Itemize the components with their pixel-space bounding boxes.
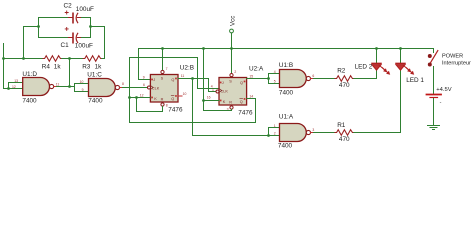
svg-text:Interrupteur: Interrupteur [442,61,471,67]
node rail K U2:A [202,47,205,50]
svg-text:7476: 7476 [168,106,183,113]
capacitor C1 [65,27,80,42]
op-amp U1:C 7400 NAND gate [80,71,124,104]
svg-text:7400: 7400 [22,97,37,104]
LED D2 [372,63,390,74]
svg-text:U2:A: U2:A [249,66,264,73]
svg-text:R: R [229,100,232,104]
svg-text:7400: 7400 [278,143,293,150]
wire K(B) net vertical [129,58,131,123]
svg-text:Q: Q [240,100,243,104]
node U2:B K net corner [128,96,131,99]
svg-text:R2: R2 [337,67,346,74]
svg-text:Q: Q [171,78,174,82]
wire K(B) net top horizontal [130,57,198,59]
svg-text:6: 6 [312,74,314,78]
svg-text:100uF: 100uF [76,6,94,13]
op-amp U1:D 7400 NAND gate [12,71,59,104]
resistor R1 [335,130,354,136]
svg-text:470: 470 [339,136,350,143]
svg-text:R4: R4 [42,63,51,70]
wire rail to LED2 [376,49,378,64]
svg-text:LED 2: LED 2 [355,64,373,71]
svg-text:CLK: CLK [152,86,160,90]
svg-text:2: 2 [274,132,276,136]
node cap loop right [89,25,92,28]
svg-text:1k: 1k [54,63,62,70]
svg-text:-: - [440,99,442,105]
wire U1:A input tie [269,128,280,136]
wire left rail stub [3,44,5,89]
resistor R3 [83,56,102,62]
wire rail down to U2:A K and R bracket [203,49,205,111]
wire battery to ground [433,99,435,126]
svg-text:J: J [153,78,155,82]
node U2:B K/R tie [135,96,138,99]
svg-text:R: R [161,97,164,101]
wire R2 to LED2 [354,70,377,78]
wire to U2:A J pin [198,58,220,89]
wire S pin U2:B [162,49,164,71]
wire U2:A R bracket [204,109,232,110]
wire U2:B Q to U2:A CLK [209,79,217,92]
svg-text:POWER: POWER [442,54,463,60]
svg-text:9: 9 [82,88,84,92]
svg-text:J: J [222,81,224,85]
node U1:A input [267,134,270,137]
wire R4-R3 middle [62,58,83,60]
svg-text:5: 5 [274,80,276,84]
wire U1:D output [57,86,75,88]
svg-text:LED 1: LED 1 [406,77,424,84]
svg-text:K: K [223,100,226,104]
svg-text:1k: 1k [95,63,103,70]
LED D1 [396,63,414,74]
svg-text:12: 12 [140,93,144,97]
node rail LED1 [399,47,402,50]
svg-text:10: 10 [183,92,187,96]
wire cap loop top edge [39,17,91,19]
svg-text:1: 1 [212,88,214,92]
node rail Vcc [230,47,233,50]
svg-text:U1:D: U1:D [22,71,37,78]
power Vcc terminal [230,16,237,49]
wire cap loop bottom edge [39,37,91,39]
node rail LED2 [375,47,378,50]
svg-text:9: 9 [143,76,145,80]
node U2:A K/R tie [202,99,205,102]
node U2:B Q branch [191,77,194,80]
battery BAT1 +4.5V [427,87,452,105]
svg-text:470: 470 [339,82,350,89]
wire U2:B J tie to rail [139,49,151,80]
wire U2:A K pin [204,100,220,102]
node R4/R3/U1D-out junction [68,57,71,60]
wire U2:A Q output [247,78,269,80]
node cap loop left [37,25,40,28]
wire U2:B Q down to U1:A [193,79,269,136]
node cap-branch/R4 line [22,57,25,60]
op-amp U1:A 7400 NAND gate [274,114,315,150]
wire U2:A Qbar route to left [130,99,256,123]
svg-text:11: 11 [181,74,185,78]
svg-text:Vcc: Vcc [230,16,237,26]
svg-text:R1: R1 [337,122,346,129]
wire U1:B input tie [269,74,280,84]
resistor R2 [335,76,354,82]
svg-text:15: 15 [249,74,253,78]
wire U1:A pin2 stub [269,135,280,137]
node rail S-pin U2:B [161,47,164,50]
svg-text:6: 6 [143,83,145,87]
wire U2:B Q output [178,78,209,80]
wire switch to battery [433,67,435,95]
svg-text:100uF: 100uF [75,43,93,50]
flip-flop U2:B 7476 [140,64,194,113]
svg-text:4: 4 [274,70,276,74]
resistor R4 [43,56,62,62]
node U1:D out / divider [68,85,71,88]
svg-text:C1: C1 [61,42,70,49]
svg-text:10: 10 [80,80,84,84]
svg-text:U1:B: U1:B [279,62,293,69]
svg-text:Q: Q [171,97,174,101]
wire Vcc rail [139,48,434,50]
wire U2:B R bracket [137,98,163,112]
switch POWER Interrupteur [428,51,471,67]
wire R4R3 node down to U1:D out [69,59,71,87]
wire R4 line left [4,58,44,60]
node U1:B input [267,77,270,80]
svg-text:U1:A: U1:A [279,114,294,121]
svg-text:8: 8 [122,82,124,86]
node U1:D input tie [7,87,10,90]
wire cap loop right to R3 [91,27,105,59]
wire capacitor loop left vertical [38,18,40,38]
svg-text:2: 2 [234,70,236,74]
flip-flop U2:A 7476 [207,66,264,117]
svg-text:8: 8 [166,103,168,107]
wire R3 right end [102,58,105,60]
svg-text:+4.5V: +4.5V [436,87,451,93]
svg-text:C2: C2 [64,3,73,10]
ground [428,126,440,130]
wire U1:A out to R1 [314,132,336,134]
svg-text:CLK: CLK [221,89,229,93]
capacitor C2 [65,11,80,23]
svg-text:S: S [161,77,164,81]
op-amp U1:B 7400 NAND gate [274,62,315,97]
wire cap branch vertical [24,27,39,59]
svg-text:3: 3 [312,128,314,132]
wire U1:C input tie [75,84,89,92]
wire rail to LED1 [400,49,402,64]
svg-text:7400: 7400 [279,89,294,96]
svg-text:R3: R3 [82,63,91,70]
svg-text:7400: 7400 [88,98,103,105]
svg-text:13: 13 [14,79,18,83]
wire U1:D input pin12 [4,88,23,90]
wire R1 to LED1 [354,70,401,132]
svg-text:14: 14 [249,94,253,98]
svg-text:U2:B: U2:B [180,64,194,71]
svg-text:Q: Q [240,81,243,85]
wire cap loop right vertical [90,18,92,38]
wire U1:B out to R2 [314,78,336,80]
wire rail right corner to switch [433,49,435,53]
svg-text:1: 1 [274,124,276,128]
svg-text:7476: 7476 [238,110,253,117]
wire U2:B K pin [130,97,151,99]
wire U1:C output to U2:B CLK [123,87,148,89]
svg-text:12: 12 [12,85,16,89]
svg-text:16: 16 [207,95,211,99]
wire Vcc down to U2:A S pin [231,49,233,74]
node left-rail/R4 junction [2,57,5,60]
svg-text:7: 7 [166,67,168,71]
svg-text:U1:C: U1:C [87,71,102,78]
wire U1:D input tie to pin13 [9,83,23,89]
